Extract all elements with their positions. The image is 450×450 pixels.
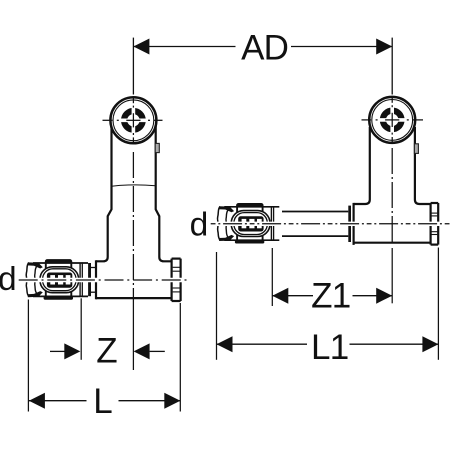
riser clip tab	[155, 143, 159, 152]
right fitting body	[353, 203, 355, 245]
svg-text:L1: L1	[311, 328, 349, 367]
left circle port	[110, 97, 156, 143]
left vertical centerline	[132, 38, 134, 95]
right horizontal centerline	[211, 223, 450, 225]
svg-text:Z1: Z1	[311, 276, 350, 315]
dimension AD line	[133, 46, 235, 48]
right flange chamfer lines	[432, 213, 438, 234]
extension L left	[27, 300, 29, 412]
extension L right	[179, 303, 181, 412]
right circle horizontal crosshair	[362, 119, 424, 121]
press sleeve (shared design)	[26, 260, 88, 300]
pipe stop cap bar	[88, 263, 91, 296]
dimension L	[29, 400, 87, 402]
casing left circle crosshair	[117, 119, 150, 123]
left circle horizontal crosshair	[103, 119, 163, 121]
sleeve raised band	[46, 260, 72, 299]
right press sleeve	[217, 204, 279, 244]
casing right horizontal centerline	[212, 222, 448, 226]
svg-text:L: L	[93, 382, 112, 421]
outlet flange	[172, 259, 181, 301]
seal ring dark caps	[27, 262, 43, 268]
insertion stop double line	[79, 263, 81, 296]
band foot bars	[44, 296, 73, 299]
right fitting riser tube	[354, 127, 370, 204]
connecting pipe	[282, 211, 348, 213]
left fitting body	[95, 260, 97, 299]
dimension Z	[50, 350, 65, 352]
svg-text:d: d	[190, 207, 209, 244]
casing right circle crosshair	[376, 118, 409, 122]
left horizontal centerline	[19, 279, 190, 281]
pipe stub between cap and body	[91, 267, 96, 269]
dimension AD arrows	[133, 39, 149, 55]
extension L1 left	[216, 252, 218, 360]
entry seal ring (hourglass)	[26, 263, 29, 297]
press indicator frame with windows	[47, 273, 72, 288]
right vertical centerline	[391, 38, 393, 95]
right pipe stop cap bar	[348, 206, 351, 242]
flange chamfer lines	[173, 267, 180, 292]
press indicator housing	[40, 267, 79, 293]
dimension L1	[217, 343, 308, 345]
dimension Z1	[272, 295, 313, 297]
svg-text:AD: AD	[241, 29, 288, 68]
extension Z left	[80, 298, 82, 360]
svg-text:d: d	[0, 261, 17, 298]
right riser clip tab	[414, 144, 418, 154]
riser pipe joint line	[112, 185, 156, 186]
right circle port	[369, 97, 415, 143]
extension L1 right	[437, 248, 439, 360]
svg-text:Z: Z	[96, 332, 117, 371]
sleeve shell	[33, 262, 88, 264]
casing left horizontal centerline	[21, 278, 188, 282]
extension Z1 left	[271, 248, 273, 306]
left fitting riser tube	[96, 126, 112, 261]
right outlet flange	[431, 203, 439, 245]
